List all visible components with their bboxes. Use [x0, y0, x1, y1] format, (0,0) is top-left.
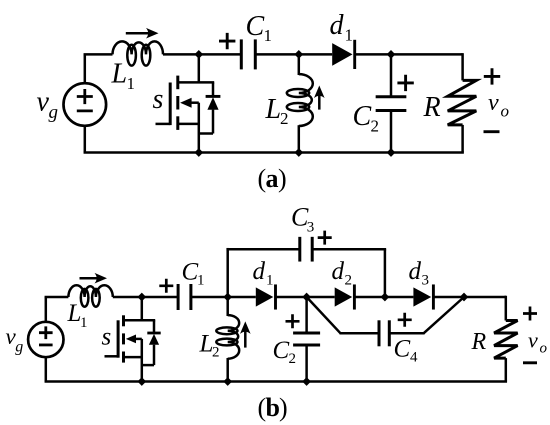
capacitor C1 (b)	[177, 284, 180, 310]
inductor L2 (b)	[226, 297, 229, 316]
current arrow L2 (a)	[318, 93, 321, 110]
svg-text:1: 1	[197, 272, 205, 288]
plus of C1 (a)	[219, 33, 235, 49]
C3 branch wire left (b)	[226, 248, 229, 297]
svg-text:C: C	[182, 259, 199, 286]
svg-text:1: 1	[127, 74, 136, 93]
node C3 bottom (b)	[381, 293, 390, 302]
svg-text:): )	[279, 393, 288, 422]
diode d3 (b)	[413, 287, 431, 306]
plus of C4 (b)	[398, 313, 412, 327]
node switch-source bottom (a)	[194, 148, 203, 157]
body diode of s (b)	[142, 320, 161, 365]
inductor L1 (a)	[113, 41, 164, 54]
wire bottom mid (b)	[142, 380, 307, 383]
plus of vo (a)	[484, 68, 500, 84]
svg-text:b: b	[266, 393, 280, 422]
MOSFET s (a)	[156, 54, 215, 152]
svg-text:1: 1	[80, 315, 88, 331]
svg-text:g: g	[49, 102, 59, 123]
svg-text:C: C	[246, 11, 265, 42]
current arrow L1 (a)	[126, 32, 152, 35]
svg-text:R: R	[423, 92, 441, 123]
svg-text:C: C	[273, 337, 290, 364]
wire d1 to C2 node (b)	[275, 296, 334, 299]
svg-text:3: 3	[422, 272, 430, 288]
wire C1 to L2 node (a)	[255, 53, 332, 56]
wire L1 to switch node (b)	[113, 296, 178, 299]
diode d1 (a)	[332, 43, 352, 66]
plus of C1 (b)	[159, 279, 173, 293]
node switch-drain top (a)	[194, 50, 203, 59]
svg-text:s: s	[102, 324, 112, 351]
svg-text:d: d	[409, 258, 422, 285]
svg-text:2: 2	[280, 109, 289, 128]
resistor R (a)	[461, 53, 464, 80]
svg-text:2: 2	[345, 272, 353, 288]
node switch-source bottom (b)	[137, 377, 146, 386]
svg-text:d: d	[253, 258, 266, 285]
body diode of s (a)	[199, 82, 221, 133]
wire d2 to C3 node (b)	[354, 296, 413, 299]
node L2/C3 top (b)	[223, 293, 232, 302]
svg-text:d: d	[332, 258, 345, 285]
svg-text:v: v	[528, 328, 538, 353]
svg-text:o: o	[501, 102, 510, 121]
wire bottom mid (a)	[199, 151, 391, 154]
capacitor C2 (a)	[390, 54, 393, 96]
current arrow L1 (b)	[80, 277, 101, 280]
inductor L2 (a)	[298, 54, 301, 75]
svg-text:L: L	[111, 58, 128, 89]
voltage source vg (b)	[28, 322, 63, 357]
plus of C2 (b)	[286, 314, 300, 328]
wire bottom right (a)	[391, 151, 464, 154]
svg-text:1: 1	[345, 26, 354, 45]
svg-text:C: C	[394, 336, 411, 363]
node switch-drain top (b)	[137, 293, 146, 302]
voltage source vg (a)	[64, 83, 107, 126]
capacitor C2 (b)	[305, 297, 308, 333]
svg-text:2: 2	[212, 345, 220, 361]
wire d1 to output node (a)	[355, 53, 462, 56]
wire vg top (a)	[84, 54, 87, 83]
minus of vo (a)	[484, 130, 500, 133]
plus of C2 (a)	[397, 75, 413, 91]
resistor R (b)	[505, 296, 506, 299]
node C2 bottom (b)	[302, 377, 311, 386]
wire C1 to L2 node (b)	[191, 296, 256, 299]
diode d1 (b)	[256, 287, 273, 306]
inductor L1 (b)	[68, 285, 112, 297]
wire d3 to output node (b)	[433, 296, 506, 299]
C4 left diagonal wire (b)	[307, 297, 341, 333]
svg-text:R: R	[471, 329, 487, 355]
svg-text:1: 1	[266, 272, 274, 288]
node C4 right / output (b)	[460, 293, 469, 302]
svg-text:2: 2	[371, 117, 380, 136]
svg-text:a: a	[266, 164, 279, 193]
circuit (b) group	[6, 203, 548, 422]
C4 right wire and diagonal (b)	[389, 332, 424, 335]
wire vg bottom (b)	[45, 357, 48, 382]
capacitor C4 (b)	[378, 320, 381, 346]
plus of vo (b)	[523, 307, 537, 321]
capacitor C3 (b)	[298, 237, 301, 262]
svg-text:): )	[278, 164, 287, 193]
node L2 bottom (b)	[223, 377, 232, 386]
node C2 bottom (a)	[387, 148, 396, 157]
node C2/C4 (b)	[302, 293, 311, 302]
svg-text:2: 2	[289, 351, 297, 367]
svg-text:g: g	[15, 339, 23, 356]
circuit (a) group	[37, 10, 510, 193]
node C2 top (a)	[387, 50, 396, 59]
svg-text:4: 4	[410, 350, 418, 366]
svg-text:s: s	[153, 84, 164, 115]
wire vg top (b)	[45, 297, 48, 322]
svg-text:d: d	[330, 10, 345, 41]
wire vg bottom (a)	[84, 126, 87, 153]
C3 branch wire right (b)	[312, 248, 386, 251]
node L2 top (a)	[294, 50, 303, 59]
diode d2 (b)	[335, 287, 353, 306]
current arrow L2 (b)	[244, 328, 247, 347]
minus of vo (b)	[523, 361, 537, 364]
plus of C3 (b)	[318, 231, 332, 245]
capacitor C1 (a)	[240, 39, 243, 69]
node L2 bottom (a)	[294, 148, 303, 157]
wire L1 to switch node (a)	[163, 53, 241, 56]
svg-text:o: o	[540, 341, 548, 357]
svg-text:3: 3	[307, 220, 315, 236]
svg-text:L: L	[265, 94, 282, 125]
svg-text:C: C	[353, 101, 372, 132]
wire bottom right (b)	[307, 380, 507, 383]
MOSFET s (b)	[105, 297, 156, 382]
svg-text:v: v	[488, 90, 499, 116]
svg-text:1: 1	[264, 26, 273, 45]
